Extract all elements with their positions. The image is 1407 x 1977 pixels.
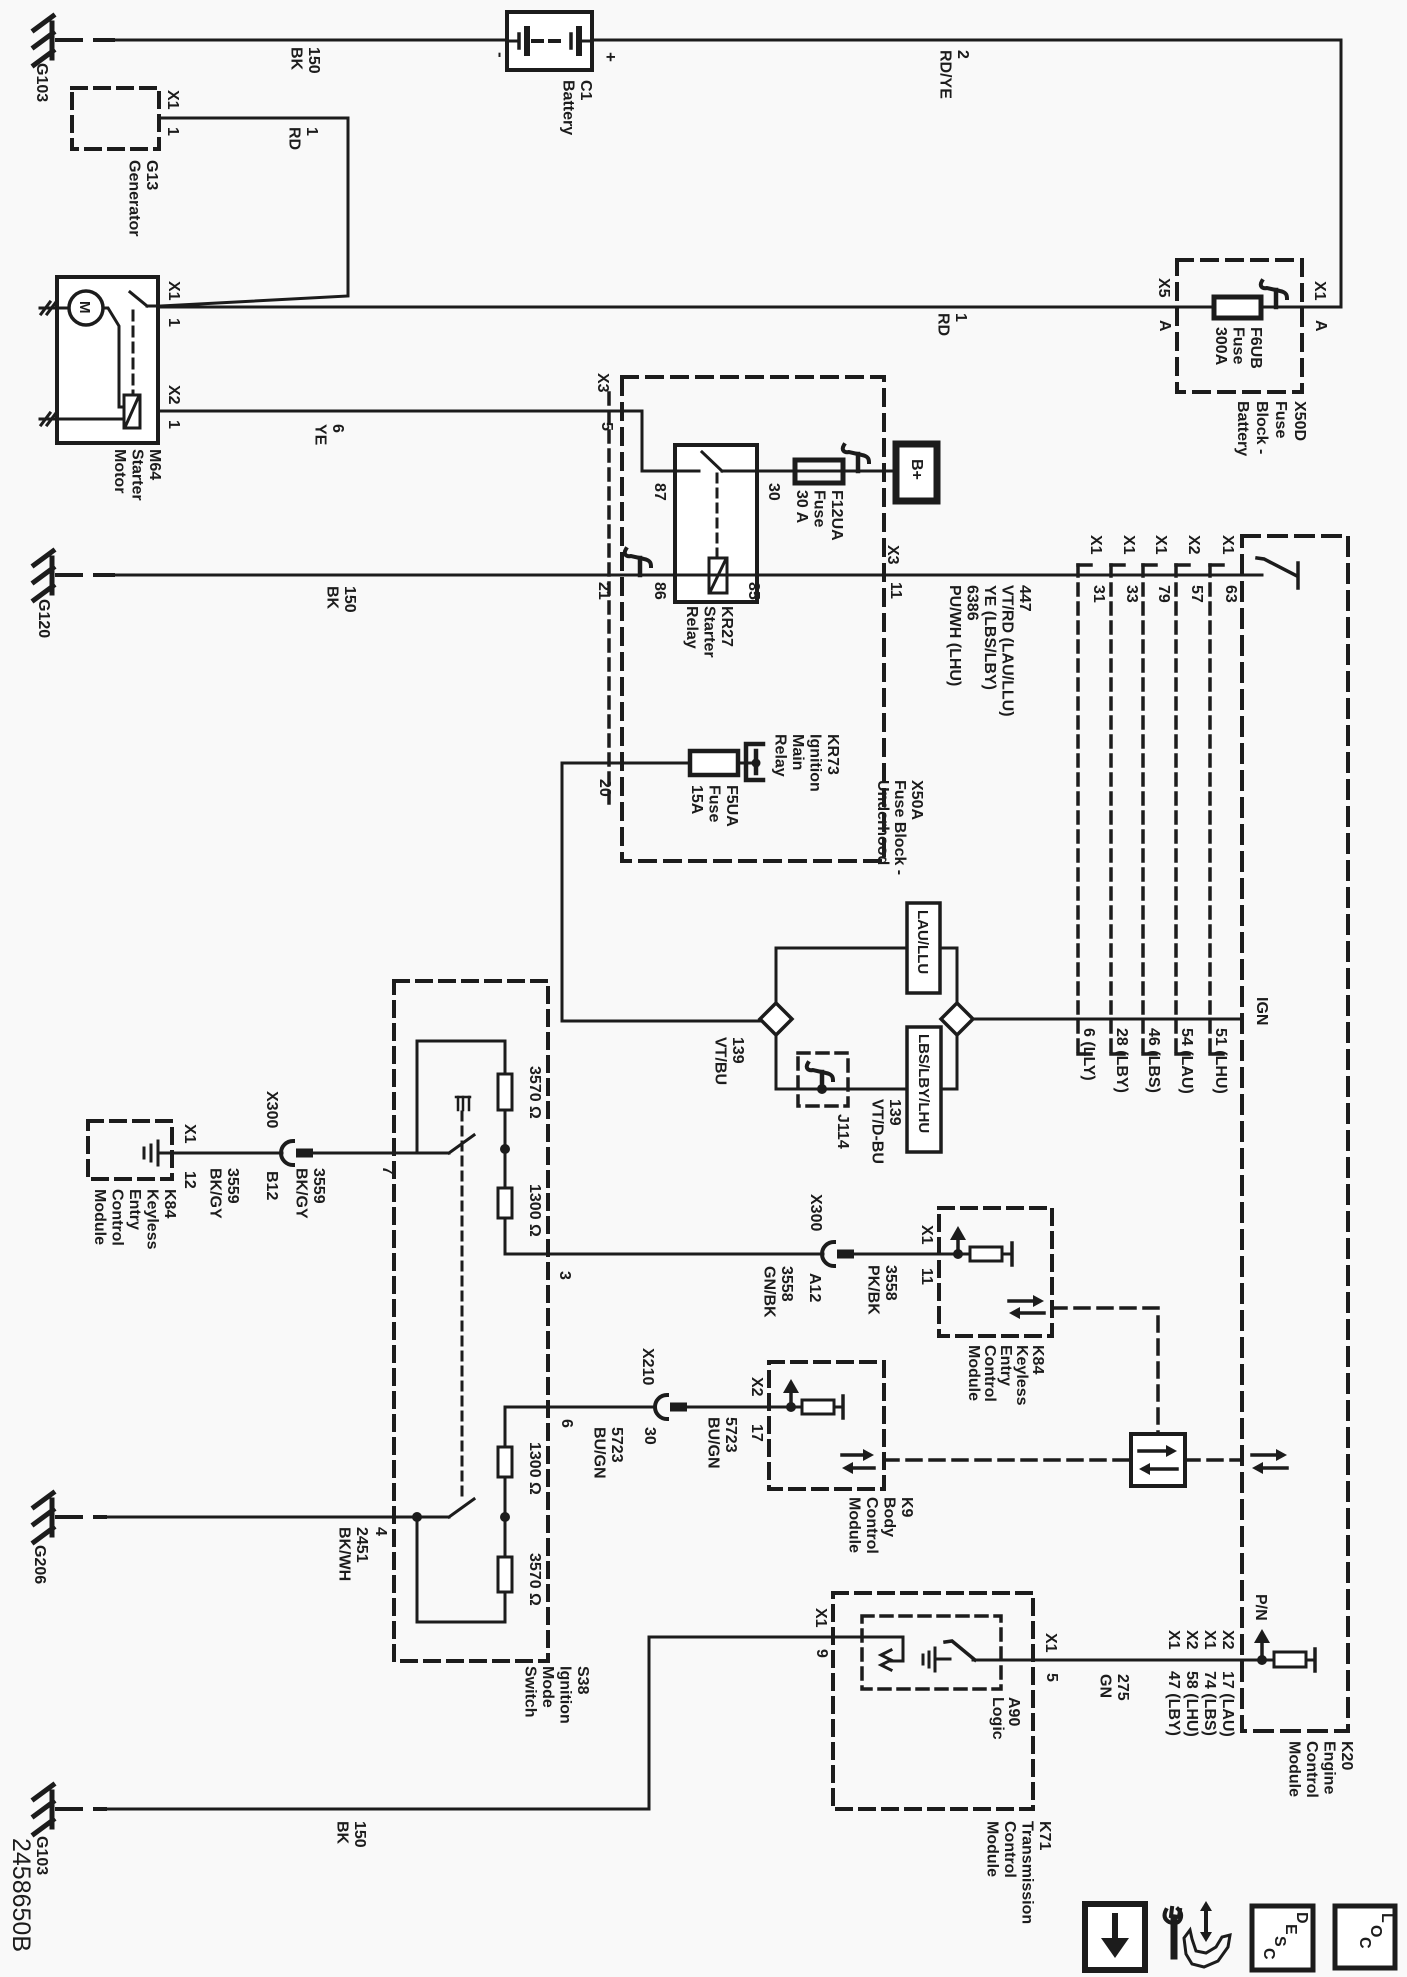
svg-text:RD: RD [286, 127, 303, 150]
ground G103 [34, 16, 53, 65]
svg-text:Transmission: Transmission [1019, 1821, 1036, 1924]
svg-text:28 (LBY): 28 (LBY) [1113, 1028, 1130, 1093]
svg-text:Main: Main [789, 734, 806, 770]
svg-text:Control: Control [981, 1345, 998, 1402]
svg-text:C: C [1356, 1937, 1373, 1949]
svg-text:M: M [76, 301, 93, 314]
svg-text:5: 5 [1043, 1673, 1060, 1682]
svg-text:6 (LLY): 6 (LLY) [1080, 1028, 1097, 1081]
svg-text:Starter: Starter [129, 449, 146, 501]
B+ terminal box [896, 444, 937, 501]
svg-text:Entry: Entry [997, 1345, 1014, 1386]
svg-text:Module: Module [984, 1821, 1001, 1877]
svg-text:X1: X1 [1152, 535, 1169, 555]
svg-text:139: 139 [886, 1099, 903, 1126]
svg-text:KR27: KR27 [718, 606, 735, 647]
ground G206 [34, 1493, 53, 1542]
svg-text:F12UA: F12UA [828, 490, 845, 541]
svg-text:86: 86 [651, 582, 668, 600]
svg-text:X5: X5 [1155, 278, 1172, 298]
svg-text:BK/WH: BK/WH [336, 1527, 353, 1581]
S38 lower switch arm [417, 1516, 449, 1519]
splice J114 dashed box [798, 1053, 848, 1106]
svg-text:Fuse: Fuse [811, 490, 828, 527]
svg-text:Generator: Generator [126, 160, 143, 236]
svg-text:54 (LAU): 54 (LAU) [1178, 1028, 1195, 1094]
svg-text:BK/GY: BK/GY [293, 1168, 310, 1219]
svg-text:58 (LHU): 58 (LHU) [1183, 1671, 1200, 1737]
wire relay 30 to B+ [757, 470, 896, 473]
svg-text:Control: Control [109, 1189, 126, 1246]
wire 2 RD/YE battery to X50D corner [592, 40, 1341, 307]
data link box [1131, 1434, 1185, 1486]
svg-text:Underhood: Underhood [874, 780, 891, 865]
svg-text:300A: 300A [1212, 327, 1229, 366]
inline connector X210 pin 30 [655, 1395, 687, 1419]
svg-text:LBS/LBY/LHU: LBS/LBY/LHU [915, 1034, 932, 1133]
wire 3558 GN/BK [548, 1253, 823, 1256]
svg-text:Relay: Relay [683, 606, 700, 649]
starter relay KR27 [675, 445, 757, 602]
svg-text:2451: 2451 [353, 1527, 370, 1563]
svg-text:X1: X1 [1042, 1633, 1059, 1653]
K9 internal: arrow, resistor, terminal [769, 1406, 802, 1409]
ground G103 lower [34, 1785, 53, 1834]
svg-text:Module: Module [846, 1497, 863, 1553]
svg-text:Relay: Relay [772, 734, 789, 777]
body control module K9 dashed box [769, 1362, 884, 1489]
svg-text:LAU/LLU: LAU/LLU [914, 910, 931, 974]
svg-text:X300: X300 [263, 1091, 280, 1128]
svg-text:2458650B: 2458650B [7, 1838, 35, 1952]
starter case ground pigtail lower [40, 413, 57, 425]
serial data dashed wire [1052, 1308, 1158, 1434]
svg-text:+: + [601, 52, 620, 62]
svg-text:VT/BU: VT/BU [712, 1037, 729, 1085]
svg-text:M64: M64 [146, 449, 163, 480]
serial data arrows in K20 [1252, 1449, 1287, 1474]
wire 150 BK from G103 to battery [57, 38, 113, 42]
svg-text:K9: K9 [898, 1497, 915, 1518]
svg-text:X1: X1 [1087, 535, 1104, 555]
switch arm in A90 [945, 1641, 975, 1660]
svg-text:Engine: Engine [1321, 1741, 1338, 1794]
svg-text:O: O [1367, 1925, 1384, 1937]
svg-text:RD/YE: RD/YE [937, 50, 954, 99]
svg-text:Fuse: Fuse [1272, 401, 1289, 438]
svg-text:139: 139 [729, 1037, 746, 1064]
svg-text:G103: G103 [33, 63, 50, 102]
svg-text:X2: X2 [1183, 1630, 1200, 1650]
svg-text:X50D: X50D [1291, 401, 1308, 441]
svg-text:46 (LBS): 46 (LBS) [1145, 1028, 1162, 1093]
svg-text:YE (LBS/LBY): YE (LBS/LBY) [981, 585, 998, 690]
resistor 3570 ohm upper [498, 1074, 512, 1110]
svg-text:VT/D-BU: VT/D-BU [869, 1099, 886, 1164]
svg-text:3558: 3558 [778, 1266, 795, 1302]
svg-text:30: 30 [765, 483, 782, 501]
svg-text:G13: G13 [143, 160, 160, 190]
svg-text:Fuse: Fuse [1230, 327, 1247, 364]
svg-text:150: 150 [351, 1821, 368, 1848]
fuse F5UA 15A [690, 751, 738, 775]
inline connector X300 pin A12 [822, 1242, 854, 1266]
svg-text:X1: X1 [181, 1124, 198, 1144]
svg-text:150: 150 [305, 47, 322, 74]
svg-text:GN/BK: GN/BK [761, 1266, 778, 1318]
svg-text:3558: 3558 [882, 1265, 899, 1301]
svg-text:BK: BK [334, 1821, 351, 1845]
svg-text:31: 31 [1090, 585, 1107, 603]
logic block A90 dashed box [862, 1616, 1001, 1689]
wire 6 YE starter X2 to starter relay 87 [158, 411, 675, 471]
serial data arrows in K9 [842, 1449, 874, 1474]
svg-text:Control: Control [1303, 1741, 1320, 1798]
svg-text:X1: X1 [1311, 281, 1328, 301]
svg-text:BU/GN: BU/GN [591, 1427, 608, 1479]
svg-text:A: A [1312, 320, 1329, 332]
svg-text:51 (LHU): 51 (LHU) [1212, 1028, 1229, 1094]
keyless entry control module K84 (left) dashed box [88, 1121, 172, 1179]
relay coil KR73 ignition main relay [746, 744, 763, 780]
svg-text:F6UB: F6UB [1247, 327, 1264, 369]
svg-text:57: 57 [1188, 585, 1205, 603]
svg-text:Body: Body [881, 1497, 898, 1537]
svg-text:G206: G206 [31, 1545, 48, 1584]
svg-text:X300: X300 [807, 1194, 824, 1231]
svg-text:PU/WH (LHU): PU/WH (LHU) [946, 585, 963, 686]
svg-text:74 (LBS): 74 (LBS) [1201, 1671, 1218, 1736]
svg-text:17: 17 [748, 1424, 765, 1442]
wire 1 RD starter X1 to fuse block battery [158, 306, 1341, 309]
svg-text:X2: X2 [165, 385, 182, 405]
svg-text:D: D [1293, 1912, 1310, 1924]
ignition mode switch S38 dashed box [394, 981, 548, 1661]
keyless entry control module K84 (right) dashed box [939, 1208, 1052, 1336]
fuse F12UA 30A [795, 460, 843, 483]
svg-text:3570 Ω: 3570 Ω [526, 1553, 543, 1606]
wire 2451 BK/WH [57, 1515, 105, 1519]
svg-text:Starter: Starter [701, 606, 718, 658]
starter internals: contact arm, dashed link, solenoid coil [103, 308, 124, 407]
splice diamond right [941, 1003, 973, 1035]
svg-text:47 (LBY): 47 (LBY) [1165, 1671, 1182, 1736]
icon LOC box [1335, 1906, 1395, 1968]
S38 upper resistor chain [417, 1041, 548, 1254]
svg-text:Entry: Entry [126, 1189, 143, 1230]
svg-text:5: 5 [598, 422, 615, 431]
svg-text:Mode: Mode [539, 1666, 556, 1708]
svg-text:6: 6 [558, 1419, 575, 1428]
svg-text:RD: RD [935, 313, 952, 336]
svg-text:Motor: Motor [111, 449, 128, 493]
S38 lower resistor chain [417, 1407, 505, 1622]
svg-text:33: 33 [1123, 585, 1140, 603]
mechanical link dashed [461, 1112, 464, 1496]
IGN lower branch wire [776, 1035, 957, 1089]
svg-text:G120: G120 [35, 599, 52, 638]
svg-text:B+: B+ [908, 459, 925, 480]
svg-text:63: 63 [1222, 585, 1239, 603]
svg-text:YE: YE [312, 424, 329, 446]
svg-text:1: 1 [165, 420, 182, 429]
svg-text:6: 6 [329, 424, 346, 433]
svg-text:X1: X1 [918, 1225, 935, 1245]
curl splice symbol at F6UB [1261, 281, 1287, 307]
svg-text:BK: BK [288, 47, 305, 71]
svg-text:IGN: IGN [1253, 997, 1270, 1025]
svg-text:9: 9 [813, 1649, 830, 1658]
svg-text:12: 12 [181, 1171, 198, 1189]
svg-text:X1: X1 [1219, 535, 1236, 555]
svg-text:J114: J114 [834, 1114, 851, 1149]
icon wrench and component [1165, 1901, 1230, 1967]
svg-text:X2: X2 [1219, 1630, 1236, 1650]
resistor and terminal inside K20 [1262, 1659, 1274, 1662]
svg-text:X210: X210 [639, 1348, 656, 1385]
svg-text:X3: X3 [594, 373, 611, 393]
svg-text:X2: X2 [748, 1377, 765, 1397]
svg-text:85: 85 [745, 582, 762, 600]
svg-text:BK/GY: BK/GY [207, 1168, 224, 1219]
svg-text:Module: Module [965, 1345, 982, 1401]
svg-text:L: L [1378, 1913, 1395, 1923]
svg-text:30 A: 30 A [793, 490, 810, 524]
svg-text:1300 Ω: 1300 Ω [526, 1184, 543, 1237]
wire 1 RD generator to starter X1 [159, 118, 348, 306]
svg-text:2: 2 [954, 50, 971, 59]
svg-text:Switch: Switch [522, 1666, 539, 1718]
icon full-size-view box with down arrow [1085, 1904, 1145, 1970]
battery C1 [507, 12, 592, 70]
svg-text:1300 Ω: 1300 Ω [526, 1442, 543, 1495]
starter case ground pigtail upper [40, 302, 57, 314]
svg-text:15A: 15A [688, 785, 705, 815]
svg-text:X1: X1 [164, 90, 181, 110]
svg-text:S: S [1271, 1936, 1288, 1947]
svg-text:Block -: Block - [1253, 401, 1270, 454]
svg-text:BK: BK [324, 586, 341, 610]
ground G120 [34, 551, 53, 600]
svg-text:PK/BK: PK/BK [865, 1265, 882, 1315]
IGN upper branch wire [776, 948, 957, 1003]
svg-text:Battery: Battery [1234, 401, 1251, 456]
S38 upper switch arm [417, 1152, 449, 1155]
generator G13 dashed box [72, 88, 159, 149]
svg-text:Ignition: Ignition [807, 734, 824, 792]
svg-text:Fuse: Fuse [706, 785, 723, 822]
icon DESC box [1252, 1906, 1313, 1970]
curl splice symbol at B+ [843, 445, 869, 471]
curl splice on 86 wire [625, 549, 651, 575]
svg-text:150: 150 [341, 586, 358, 613]
svg-text:Battery: Battery [560, 80, 577, 135]
switch contact inside ECM at 447 wire [1257, 558, 1298, 588]
IGN wire to ECM [973, 1018, 1242, 1021]
svg-text:-: - [491, 52, 510, 58]
svg-text:X3: X3 [884, 545, 901, 565]
svg-text:X1: X1 [1120, 535, 1137, 555]
svg-text:Logic: Logic [989, 1697, 1006, 1740]
svg-text:KR73: KR73 [824, 734, 841, 775]
variant box LAU/LLU [907, 903, 940, 993]
svg-text:B12: B12 [263, 1171, 280, 1200]
inline connector X300 pin B12 [281, 1141, 313, 1165]
svg-text:K71: K71 [1036, 1821, 1053, 1850]
ECM connector pin lines (variant pins X1/X2) [1078, 535, 1107, 1054]
resistor 1300 ohm lower [498, 1447, 512, 1477]
svg-text:3570 Ω: 3570 Ω [526, 1066, 543, 1119]
svg-text:11: 11 [918, 1268, 935, 1285]
resistor 3570 ohm lower [498, 1557, 512, 1592]
svg-text:BU/GN: BU/GN [705, 1417, 722, 1469]
svg-text:447: 447 [1016, 585, 1033, 612]
motor circle M [69, 291, 103, 325]
svg-text:20: 20 [596, 779, 613, 797]
fuse block battery X50D dashed box [1177, 260, 1302, 392]
wire 139 from F5UA fuse [562, 763, 760, 1021]
fuse F6UB 300A [1214, 297, 1261, 318]
wire 150 BK G120 to relay coil / ECM [57, 573, 113, 577]
heater/zigzag element in A90 [881, 1650, 891, 1670]
svg-text:1: 1 [164, 127, 181, 136]
transmission control module K71 dashed box [833, 1593, 1033, 1809]
wire 275 GN [973, 1659, 1262, 1662]
svg-text:1: 1 [165, 318, 182, 327]
svg-text:275: 275 [1114, 1674, 1131, 1701]
svg-text:S38: S38 [574, 1666, 591, 1695]
svg-text:A12: A12 [806, 1273, 823, 1302]
svg-text:5723: 5723 [608, 1427, 625, 1463]
engine control module K20 dashed box [1242, 536, 1348, 1731]
ground symbol inside K84 [144, 1141, 172, 1165]
svg-text:11: 11 [887, 582, 904, 599]
svg-text:3559: 3559 [310, 1168, 327, 1204]
K84 internal: arrow, resistor, terminal [958, 1253, 970, 1256]
svg-text:VT/RD (LAU/LLU): VT/RD (LAU/LLU) [999, 585, 1016, 717]
svg-text:X1: X1 [1201, 1630, 1218, 1650]
svg-text:X1: X1 [1165, 1630, 1182, 1650]
splice diamond left [760, 1003, 792, 1035]
svg-text:X50A: X50A [908, 780, 925, 820]
svg-text:Control: Control [1001, 1821, 1018, 1878]
svg-text:C: C [1260, 1948, 1277, 1960]
svg-text:K84: K84 [161, 1189, 178, 1218]
svg-text:Control: Control [863, 1497, 880, 1554]
svg-text:Module: Module [1286, 1741, 1303, 1797]
wire 150 BK to K71 [57, 1807, 105, 1811]
connector X3 dashed line [607, 393, 611, 810]
serial data arrows in K84 [1009, 1295, 1044, 1319]
starter motor M64 [57, 277, 158, 443]
svg-text:4: 4 [372, 1527, 389, 1536]
svg-text:Ignition: Ignition [557, 1666, 574, 1724]
resistor 1300 ohm upper [498, 1188, 512, 1218]
relay coil KR27 [675, 574, 757, 577]
svg-text:C1: C1 [577, 80, 594, 101]
svg-text:Fuse Block -: Fuse Block - [891, 780, 908, 875]
svg-text:K84: K84 [1029, 1345, 1046, 1374]
svg-text:A: A [1156, 320, 1173, 332]
wiper contact [456, 1097, 470, 1110]
svg-text:3: 3 [556, 1271, 573, 1280]
svg-text:79: 79 [1155, 585, 1172, 603]
svg-text:A90: A90 [1005, 1697, 1022, 1726]
svg-text:3559: 3559 [224, 1168, 241, 1204]
svg-text:87: 87 [651, 483, 668, 501]
svg-text:F5UA: F5UA [723, 785, 740, 827]
svg-text:E: E [1282, 1924, 1299, 1935]
svg-text:30: 30 [641, 1427, 658, 1445]
svg-text:Keyless: Keyless [144, 1189, 161, 1250]
svg-text:1: 1 [303, 127, 320, 136]
svg-text:21: 21 [595, 582, 612, 600]
svg-text:X2: X2 [1185, 535, 1202, 555]
svg-text:6386: 6386 [964, 585, 981, 621]
fuse block underhood X50A dashed box [622, 377, 884, 861]
variant box LBS/LBY/LHU [907, 1027, 941, 1152]
svg-text:Keyless: Keyless [1013, 1345, 1030, 1406]
svg-text:GN: GN [1097, 1674, 1114, 1698]
svg-text:1: 1 [952, 313, 969, 322]
svg-text:17 (LAU): 17 (LAU) [1219, 1671, 1236, 1737]
svg-text:X1: X1 [165, 281, 182, 301]
svg-text:5723: 5723 [722, 1417, 739, 1453]
ground in A90 [923, 1648, 950, 1671]
P/N arrow inside K20 [1254, 1629, 1270, 1660]
svg-text:P/N: P/N [1252, 1594, 1269, 1621]
svg-text:Module: Module [91, 1189, 108, 1245]
wire 3559 BK/GY [174, 1152, 282, 1155]
svg-text:K20: K20 [1338, 1741, 1355, 1770]
svg-text:X1: X1 [812, 1608, 829, 1628]
